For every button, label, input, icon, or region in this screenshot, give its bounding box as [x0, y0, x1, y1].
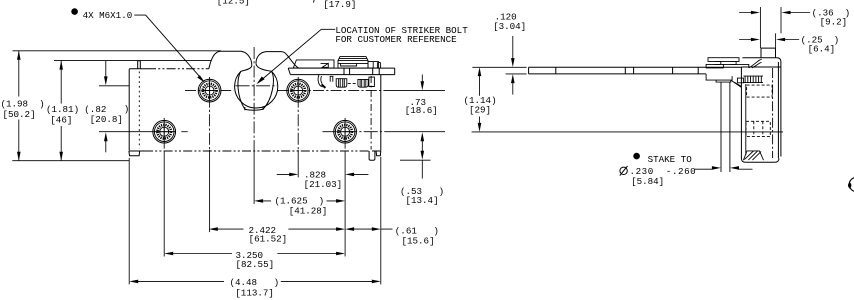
svg-text:[13.4]: [13.4] — [406, 195, 439, 206]
box3 body — [338, 61, 368, 69]
arrowhead .36 right(pointing left) — [782, 11, 791, 15]
vertical centerline lower-right hole — [344, 118, 346, 151]
ext line .36 right — [780, 7, 782, 33]
arrowhead .53 up — [421, 132, 425, 141]
arrowhead .53 down — [421, 151, 425, 160]
ext vertical plate right edge — [380, 157, 382, 284]
body left edge — [741, 67, 745, 162]
vertical centerline upper-right hole — [297, 77, 299, 150]
pocket inner funnel right — [263, 71, 273, 109]
gooseneck inner — [752, 62, 762, 68]
pocket left lip — [241, 65, 252, 71]
edge-clipped mark at right border — [848, 177, 854, 191]
svg-text:[12.5]: [12.5] — [217, 0, 250, 6]
ext line strip top left — [472, 66, 526, 68]
svg-text:[17.9]: [17.9] — [323, 0, 356, 10]
stake post top — [761, 48, 776, 58]
gooseneck outer — [749, 59, 762, 68]
plate left edge — [128, 70, 130, 151]
bottom-left corner tab — [129, 151, 140, 156]
dim line 1.98 — [18, 51, 20, 161]
below-strip plate — [706, 74, 732, 80]
dim .120 upper arrow tail — [512, 36, 514, 59]
arrowhead .120 down — [511, 58, 515, 67]
dim line 1.625 — [262, 200, 338, 202]
box3 cap — [338, 57, 368, 61]
stake dim line right — [739, 168, 753, 170]
hole upper-left — [198, 79, 221, 102]
pocket right lip — [256, 63, 272, 71]
dim .120 lower arrow tail — [512, 82, 514, 94]
below-strip lip — [716, 80, 731, 82]
arrowhead 1.98 bottom — [17, 152, 21, 161]
arrowhead 3.250 left — [164, 252, 173, 256]
svg-text:[6.4]: [6.4] — [808, 43, 836, 54]
brace diagonals — [731, 80, 742, 87]
stack lower plate 1 — [706, 64, 723, 68]
pocket bottom slot ticks — [245, 107, 263, 110]
svg-text:[20.8]: [20.8] — [90, 114, 123, 125]
brace block — [737, 78, 743, 83]
dim line .36 — [739, 12, 810, 14]
ext line top flange (1.81) — [54, 60, 211, 62]
svg-text:FOR CUSTOMER REFERENCE: FOR CUSTOMER REFERENCE — [335, 34, 457, 45]
arrowhead 1.81 bottom — [59, 152, 63, 161]
svg-text:): ) — [124, 104, 130, 115]
.73/.53 middle arrow tails — [421, 140, 423, 151]
arrowhead 3.250 right — [336, 252, 345, 256]
arrowhead stake left(pointing right) — [712, 166, 721, 170]
back bar bottom edge — [290, 74, 394, 76]
leader arrowhead striker — [257, 76, 265, 84]
wedge block — [321, 63, 329, 67]
vertical centerline upper-left hole — [209, 77, 211, 150]
ext line strip bottom left — [506, 73, 527, 75]
arrowhead 1.14 up — [478, 67, 482, 76]
plate right edge — [380, 75, 382, 151]
body cap bottom — [741, 66, 781, 68]
striker pocket circle — [235, 71, 278, 108]
back bar top edge — [288, 67, 395, 69]
plate bottom edge solid corners — [129, 150, 381, 152]
.73 upper arrow tail — [421, 75, 423, 83]
svg-text:[29]: [29] — [469, 105, 491, 116]
ext line top of humps (1.98) — [13, 50, 222, 52]
stake dim line left — [695, 168, 713, 170]
arrowhead 1.625 left — [254, 199, 263, 203]
body bottom-right corner — [775, 158, 779, 162]
arrowhead .828 right(pointing left) — [345, 173, 354, 177]
ext line bottom (1.98/1.81) — [12, 160, 129, 162]
svg-text:[82.55]: [82.55] — [236, 259, 275, 270]
arrowhead stake right(pointing left) — [730, 166, 739, 170]
stack post 1 — [715, 61, 721, 64]
pawl hook — [318, 75, 322, 87]
stack post 2 — [731, 61, 736, 64]
plate bottom edge phantom — [144, 150, 369, 152]
hidden dashes between feet — [348, 82, 356, 84]
dim line .61 — [353, 228, 393, 230]
ext line .25 right — [775, 33, 777, 48]
striker centerline extension left — [99, 85, 129, 87]
arrowhead .82 up — [104, 132, 108, 141]
hardware above bar — [293, 57, 380, 88]
svg-text:[46]: [46] — [50, 115, 72, 126]
svg-text:[61.52]: [61.52] — [249, 234, 288, 245]
hidden rect lower — [746, 121, 770, 136]
pocket bottom flat — [245, 109, 263, 110]
arrowhead 2.422 left — [209, 227, 218, 231]
arrowhead 1.81 top — [59, 61, 63, 70]
paren fragment tick — [312, 0, 315, 3]
svg-text:STAKE TO: STAKE TO — [648, 154, 693, 165]
bottom hatch outline — [743, 151, 763, 160]
dim line .25 — [739, 39, 799, 41]
svg-text:[21.03]: [21.03] — [304, 179, 343, 190]
bottom hatch diagonals — [744, 151, 761, 160]
hidden lock-post line right — [370, 76, 372, 150]
lower hole row centerline — [99, 131, 176, 133]
box1 — [293, 60, 334, 68]
body inner-left wall — [745, 84, 747, 155]
.53 leader tail below — [421, 160, 423, 178]
stack lower plate 2 — [723, 64, 748, 68]
arrowhead .25 right(pointing left) — [776, 38, 785, 42]
body bottom — [745, 161, 775, 163]
arrowhead .61 left — [345, 227, 354, 231]
dim line 2.422 — [217, 228, 338, 230]
teeth top/bottom — [743, 76, 763, 83]
strip bottom edge — [529, 73, 706, 75]
back bar left bevel — [288, 68, 290, 75]
upper hole row centerline — [185, 90, 234, 92]
striker vertical centerline — [253, 47, 255, 151]
dim line 3.250 — [172, 253, 338, 255]
hole upper-right — [287, 79, 310, 102]
ext line y=158.7 for .53 — [400, 159, 431, 161]
vertical centerline lower-left hole — [163, 118, 165, 151]
svg-text:[50.2]: [50.2] — [3, 109, 36, 120]
svg-text:[18.6]: [18.6] — [405, 105, 438, 116]
arrowhead 1.14 down — [478, 123, 482, 132]
arrowhead .36 left(pointing right) — [751, 11, 760, 15]
leader line for striker note — [261, 29, 335, 80]
top-left flange tab — [138, 61, 141, 69]
arrowhead .82 down — [104, 76, 108, 85]
arrowhead 2.422 right — [336, 227, 345, 231]
box4 — [368, 62, 379, 69]
svg-text:4X M6X1.0: 4X M6X1.0 — [83, 10, 133, 21]
hidden verticals in lower rect — [754, 121, 763, 136]
bar segment verticals — [344, 68, 379, 75]
arrowhead 4.48 left — [129, 280, 138, 284]
hump 1 (left ear) — [209, 51, 252, 69]
pocket inner funnel left — [238, 71, 245, 109]
top-right flange tab — [377, 63, 380, 69]
arrowhead .73 down — [421, 81, 425, 90]
dim line 1.81 — [60, 61, 62, 161]
back bar right end — [394, 68, 396, 75]
body cap top — [742, 58, 781, 62]
dim line 4.48 — [137, 280, 373, 282]
hidden rect upper — [747, 85, 773, 97]
right hanger piece — [369, 77, 375, 86]
roller foot 1 — [336, 79, 347, 88]
pawl wedge — [322, 84, 326, 88]
dim .82 lower arrow line — [105, 140, 107, 153]
arrowhead .828 left(pointing right) — [289, 173, 298, 177]
svg-text:[9.2]: [9.2] — [820, 16, 848, 27]
leader line for thread callout — [134, 15, 199, 76]
ext verticals below part: plate left edge — [128, 158, 130, 284]
strip segment marks — [556, 67, 698, 74]
thread callout bullet — [71, 8, 78, 15]
dim line .828 — [277, 173, 369, 175]
roller foot 2 — [358, 79, 368, 87]
stake note bullet — [633, 153, 640, 160]
body centerline — [772, 68, 774, 158]
strip top edge — [529, 66, 742, 68]
arrowhead 1.98 top — [17, 51, 21, 60]
arrowhead 4.48 right — [372, 280, 381, 284]
body right edge inner — [777, 62, 779, 158]
striker axis baseline — [472, 131, 783, 133]
lock-post bottom tab — [369, 151, 375, 160]
arrowhead 1.625 right — [336, 199, 345, 203]
dim 1.14 bottom arrow tail — [479, 117, 481, 124]
dim .82 upper arrow line — [105, 61, 107, 78]
arrowhead .120 up — [511, 74, 515, 83]
body right edge outer — [780, 62, 782, 157]
bottom-right corner tab — [376, 151, 381, 156]
strip left end — [528, 67, 530, 74]
hidden bend line left — [138, 72, 140, 149]
stake post extension lines — [721, 82, 730, 172]
svg-text:[41.28]: [41.28] — [289, 206, 328, 217]
striker horizontal centerline — [236, 85, 278, 87]
ext line .36 left — [759, 7, 761, 48]
teeth verticals — [745, 76, 761, 83]
leader arrowhead 4X — [197, 75, 205, 83]
svg-text:(4.48 ): (4.48 ) — [230, 277, 280, 288]
plate top edge phantom — [147, 68, 209, 70]
arrowhead .25 left(pointing right) — [751, 38, 760, 42]
hole lower-right — [334, 120, 357, 143]
plate top edge (solid corner part) — [129, 68, 147, 71]
hole lower-left — [153, 120, 176, 143]
small latch piece — [330, 76, 334, 81]
stack top plate — [708, 58, 739, 62]
svg-text:[5.84]: [5.84] — [631, 176, 664, 187]
hump 2 (right ear) — [256, 52, 299, 69]
svg-text:[113.7]: [113.7] — [235, 287, 274, 298]
svg-text:[3.04]: [3.04] — [493, 21, 526, 32]
dim 1.14 top arrow tail — [479, 75, 481, 96]
arrowhead .61 right — [372, 227, 381, 231]
svg-text:[15.6]: [15.6] — [402, 236, 435, 247]
